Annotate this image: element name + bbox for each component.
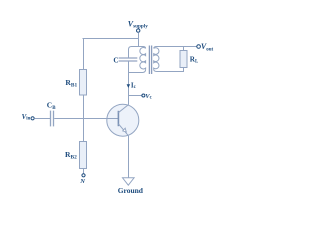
wire emitter	[128, 136, 130, 178]
terminal V_c	[142, 94, 145, 97]
transistor Q1	[106, 104, 139, 136]
wire R_L bottom stub	[183, 68, 185, 73]
terminal V_supply	[137, 29, 140, 32]
svg-text:RB2: RB2	[65, 150, 77, 161]
wire down to R_B1	[83, 38, 85, 70]
primary coil L1	[140, 48, 146, 70]
terminal V_out	[197, 45, 201, 49]
wire base node to R_B2	[83, 118, 85, 142]
svg-text:N: N	[79, 178, 85, 185]
svg-text:Vsupply: Vsupply	[128, 20, 148, 30]
wire tank left branch (with capacitor gap)	[129, 47, 146, 73]
svg-text:Vin: Vin	[22, 113, 31, 122]
svg-text:RB1: RB1	[65, 78, 77, 89]
current arrow I_c	[127, 84, 131, 88]
svg-text:Ic: Ic	[131, 81, 137, 90]
wire V_in to C_B	[34, 118, 50, 120]
wire secondary top	[154, 47, 197, 49]
wire V_c tap	[129, 95, 142, 97]
transformer core	[148, 46, 150, 75]
svg-text:C: C	[113, 57, 118, 65]
wire R_L top stub	[183, 47, 185, 52]
svg-text:CB: CB	[47, 101, 56, 111]
terminal V_in	[31, 117, 34, 120]
svg-text:RL: RL	[190, 56, 198, 65]
resistor R_B1	[80, 70, 87, 96]
svg-text:Ground: Ground	[118, 186, 144, 195]
ground symbol	[123, 178, 135, 185]
capacitor C_B	[50, 111, 52, 127]
wire R_B2 to terminal	[83, 169, 85, 174]
wire collector	[128, 73, 130, 105]
wire supply down	[138, 32, 140, 47]
svg-text:Vout: Vout	[201, 42, 214, 53]
resistor R_B2	[80, 142, 87, 169]
wire R_B1 to base node	[83, 95, 85, 119]
wire secondary bottom	[154, 69, 184, 71]
secondary coil L2	[154, 48, 159, 70]
wire top rail left	[83, 38, 140, 40]
wire C_B to base	[54, 118, 118, 120]
terminal node N	[82, 174, 85, 177]
wire tank bottom	[128, 69, 146, 72]
svg-text:Vc: Vc	[145, 93, 152, 101]
resistor R_L	[180, 51, 187, 68]
capacitor C	[119, 57, 138, 59]
